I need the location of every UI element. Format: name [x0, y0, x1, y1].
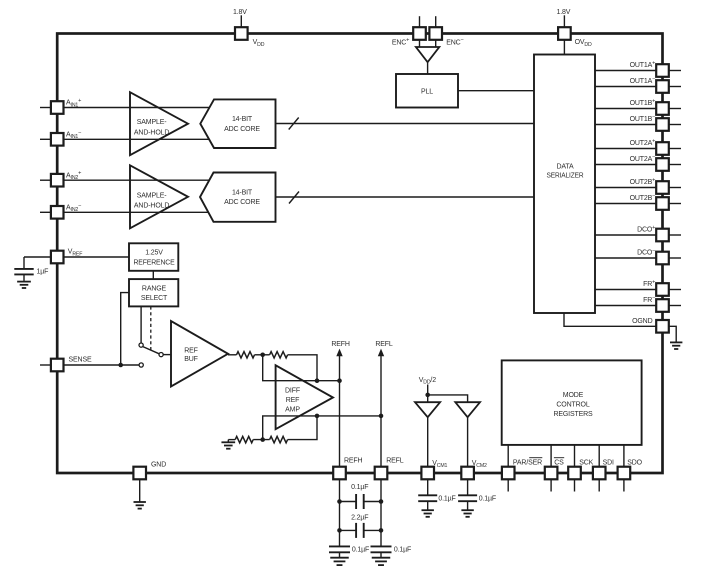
pin ENC-	[435, 16, 437, 27]
pin SDI	[598, 479, 600, 491]
mode control registers block	[502, 360, 642, 445]
ground at VCM1 capacitor	[422, 509, 434, 511]
svg-text:CONTROL: CONTROL	[556, 402, 589, 409]
wire serializer to FR+ pin	[595, 289, 663, 291]
wire serializer to OUT2A- pin	[595, 164, 663, 166]
svg-text:1µF: 1µF	[37, 268, 49, 275]
pin REFH	[333, 467, 346, 480]
data serializer block	[534, 55, 595, 314]
svg-text:OGND: OGND	[632, 318, 652, 325]
wire ADC core 1 output bus to data serializer	[276, 123, 535, 125]
switch contact SENSE (open circle)	[139, 363, 143, 367]
svg-text:REFL: REFL	[386, 457, 404, 464]
pin OUT1A-	[669, 86, 681, 88]
ground at VCM2 capacitor	[461, 509, 473, 511]
range select block	[129, 279, 178, 306]
svg-text:REFH: REFH	[331, 341, 350, 348]
wire serializer to FR- pin	[595, 305, 663, 307]
wire mode control registers to pin	[623, 445, 625, 473]
svg-text:ADC CORE: ADC CORE	[224, 199, 260, 206]
bus slash mark channel 1	[289, 118, 299, 130]
svg-text:REF: REF	[184, 348, 198, 355]
wire VCM2 buffer to pin	[467, 417, 469, 473]
wire VCM1 buffer to pin	[427, 417, 429, 473]
svg-text:1.25V: 1.25V	[145, 250, 163, 257]
svg-text:2.2µF: 2.2µF	[351, 514, 368, 521]
svg-text:GND: GND	[151, 461, 166, 468]
bus slash mark channel 2	[289, 192, 299, 204]
svg-text:PLL: PLL	[421, 89, 433, 96]
capacitor 2.2uF between REFH and REFL	[340, 529, 357, 531]
pin VDD	[240, 15, 242, 27]
pin AIN2-	[40, 211, 51, 213]
svg-text:OUT2A−: OUT2A−	[630, 155, 656, 164]
dashed control line from range select to switch	[150, 306, 152, 351]
wire VDD/2 to VCM2 buffer	[428, 395, 468, 402]
pin OUT1B-	[669, 124, 681, 126]
wire serializer to DCO- pin	[595, 257, 663, 259]
svg-text:SAMPLE-: SAMPLE-	[137, 119, 167, 126]
svg-text:BUF: BUF	[184, 356, 198, 363]
sample-and-hold amp 2	[130, 165, 188, 228]
ground at GND pin	[139, 479, 141, 501]
wire serializer to DCO+ pin	[595, 234, 663, 236]
pin AIN2+	[40, 179, 51, 181]
node REFL internal rail with arrow	[380, 356, 382, 474]
svg-text:SAMPLE-: SAMPLE-	[137, 192, 167, 199]
capacitor 0.1uF REFL to ground	[371, 545, 392, 547]
wire serializer to OUT2A+ pin	[595, 148, 663, 150]
sample-and-hold amp 1	[130, 92, 188, 155]
svg-text:DATA: DATA	[556, 163, 574, 170]
wire range select to upper switch contact	[140, 306, 142, 343]
pin ENC+	[419, 16, 421, 27]
1.25V reference block	[129, 243, 178, 270]
svg-text:SELECT: SELECT	[141, 295, 168, 302]
buffer VCM1 (unity-gain)	[415, 402, 440, 417]
junction REFL sense node	[379, 414, 384, 419]
capacitor 0.1uF between REFH and REFL	[340, 501, 357, 503]
chip outline (IC boundary)	[57, 34, 662, 474]
svg-text:SDO: SDO	[627, 459, 642, 466]
wire mode control registers to pin	[574, 445, 576, 473]
overline on CS	[554, 457, 564, 459]
junction diff amp + input node	[315, 378, 320, 383]
svg-text:OUT1B+: OUT1B+	[630, 99, 656, 108]
wire top feedback to diff amp + input	[263, 355, 340, 381]
wire AIN2+ input to S/H and ADC core 2	[57, 179, 211, 181]
pin OUT1A+	[669, 70, 681, 72]
wire REFL decoupling rail	[380, 479, 382, 546]
wire ENC+ pin to clock buffer	[419, 34, 421, 48]
capacitor 0.1uF REFH to ground	[329, 545, 350, 547]
svg-text:RANGE: RANGE	[142, 286, 167, 293]
resistor R4	[270, 436, 288, 442]
wire PLL to data serializer	[458, 90, 534, 92]
wire bottom feedback to diff amp - input	[263, 416, 381, 440]
wire mode control registers to pin	[598, 445, 600, 473]
svg-text:REF: REF	[286, 397, 300, 404]
svg-text:OUT2A+: OUT2A+	[630, 139, 656, 148]
svg-text:0.1µF: 0.1µF	[438, 495, 455, 502]
pin REFL	[375, 467, 388, 480]
wire VREF pin to 1.25V reference	[57, 256, 129, 258]
capacitor 0.1uF at VCM1	[427, 479, 429, 495]
svg-text:SERIALIZER: SERIALIZER	[547, 173, 584, 180]
wire R2 to REFH node	[288, 355, 317, 381]
wire REFH decoupling rail	[339, 479, 341, 546]
svg-text:0.1µF: 0.1µF	[352, 546, 369, 553]
wire ADC core 2 output bus to data serializer	[276, 196, 535, 198]
wire AIN1+ input to S/H and ADC core 1	[57, 107, 211, 109]
wire ground to R3	[228, 439, 235, 441]
pin SENSE	[40, 364, 51, 366]
wire R4 to REFL node	[288, 416, 317, 440]
overline on SER of PAR/SER	[529, 457, 542, 459]
junction ref divider top	[260, 353, 265, 358]
pin FR+	[669, 289, 681, 291]
ground at REFL capacitor	[372, 557, 391, 559]
pin DCO+	[669, 234, 681, 236]
svg-text:1.8V: 1.8V	[557, 9, 571, 16]
pin OUT2A+	[669, 148, 681, 150]
wire switch pole to ref buffer	[163, 354, 171, 356]
svg-text:MODE: MODE	[563, 392, 584, 399]
pin CS	[550, 479, 552, 491]
svg-text:AND-HOLD: AND-HOLD	[134, 130, 169, 137]
switch lever	[143, 347, 160, 354]
svg-text:1.8V: 1.8V	[233, 9, 247, 16]
svg-text:OUT2B−: OUT2B−	[630, 194, 656, 203]
wire SENSE feedback to range select	[121, 293, 129, 365]
ADC core 1 (14-bit)	[200, 99, 275, 148]
pin VREF	[24, 256, 51, 258]
wire serializer to OUT2B+ pin	[595, 187, 663, 189]
resistor R3	[235, 436, 253, 442]
junction ref divider bottom	[260, 437, 265, 442]
op-amp DIFF REF AMP	[276, 365, 333, 429]
pin OUT2A-	[669, 164, 681, 166]
svg-text:OUT1B−: OUT1B−	[630, 115, 656, 124]
wire mode control registers to pin	[507, 445, 509, 473]
junction REFH sense node	[337, 378, 342, 383]
svg-text:PAR/SER: PAR/SER	[513, 459, 542, 466]
wire ref buffer output	[228, 354, 237, 356]
svg-text:SENSE: SENSE	[69, 357, 92, 364]
ADC core 2 (14-bit)	[200, 173, 276, 222]
svg-text:OUT1A−: OUT1A−	[630, 77, 656, 86]
svg-text:14-BIT: 14-BIT	[232, 116, 253, 123]
pin OGND	[656, 320, 669, 333]
switch pole (open circle)	[159, 353, 163, 357]
capacitor 0.1uF at VCM2	[467, 479, 469, 495]
wire R3 to R4	[253, 439, 269, 441]
svg-text:REFH: REFH	[344, 457, 363, 464]
ground at VREF capacitor	[17, 281, 31, 283]
svg-text:SCK: SCK	[579, 459, 593, 466]
wire 1.25V reference to range select	[152, 271, 154, 279]
pin SCK	[574, 479, 576, 491]
buffer VCM2 (unity-gain)	[455, 402, 480, 417]
wire serializer to OUT1A- pin	[595, 86, 663, 88]
pin PAR/SER	[507, 479, 509, 491]
wire R1 to R2	[255, 354, 270, 356]
PLL block	[396, 74, 458, 108]
svg-text:0.1µF: 0.1µF	[351, 484, 368, 491]
ground at OGND	[669, 326, 676, 342]
svg-text:REFERENCE: REFERENCE	[134, 259, 175, 266]
wire mode control registers to pin	[550, 445, 552, 473]
svg-text:OUT2B+: OUT2B+	[630, 178, 656, 187]
svg-text:REGISTERS: REGISTERS	[553, 411, 593, 418]
capacitor 1uF at VREF	[23, 257, 25, 269]
ground at R3	[227, 440, 229, 442]
wire AIN1- input to S/H and ADC core 1	[57, 138, 211, 140]
pin DCO-	[669, 257, 681, 259]
pin AIN1+	[40, 107, 51, 109]
svg-text:14-BIT: 14-BIT	[232, 189, 253, 196]
wire AIN2- input to S/H and ADC core 2	[57, 211, 211, 213]
pin FR-	[669, 305, 681, 307]
node REFH internal rail with arrow	[339, 356, 341, 474]
wire serializer to OUT2B- pin	[595, 203, 663, 205]
pin GND	[133, 467, 146, 480]
pin OVDD	[563, 15, 565, 27]
svg-text:DIFF: DIFF	[285, 387, 300, 394]
svg-text:OUT1A+: OUT1A+	[630, 61, 656, 70]
junction diff amp - input node	[315, 414, 320, 419]
junction SENSE node	[118, 363, 123, 368]
resistor R1	[237, 352, 255, 358]
ground at REFH capacitor	[330, 557, 349, 559]
wire clock buffer to PLL	[427, 62, 429, 75]
svg-text:AND-HOLD: AND-HOLD	[134, 203, 169, 210]
svg-text:0.1µF: 0.1µF	[479, 495, 496, 502]
wire OVDD pin to data serializer	[563, 34, 565, 55]
junction VDD/2 node	[425, 393, 430, 398]
pin AIN1-	[40, 138, 51, 140]
wire VDD/2 stub	[427, 385, 429, 403]
wire serializer to OUT1B+ pin	[595, 108, 663, 110]
pin OUT1B+	[669, 108, 681, 110]
switch contact upper (open circle)	[139, 343, 143, 347]
wire serializer to OGND pin	[564, 313, 663, 326]
pin OUT2B+	[669, 187, 681, 189]
svg-text:ADC CORE: ADC CORE	[224, 126, 260, 133]
clock input buffer	[416, 47, 439, 62]
wire serializer to OUT1B- pin	[595, 124, 663, 126]
svg-text:AMP: AMP	[285, 407, 300, 414]
wire serializer to OUT1A+ pin	[595, 70, 663, 72]
pin OUT2B-	[669, 203, 681, 205]
wire ENC- pin to clock buffer	[435, 34, 437, 48]
pin SDO	[623, 479, 625, 491]
pin VCM2	[461, 467, 474, 480]
svg-text:0.1µF: 0.1µF	[394, 546, 411, 553]
resistor R2	[270, 352, 288, 358]
pin VCM1	[421, 467, 434, 480]
op-amp REF BUF	[171, 321, 228, 387]
wire SENSE pin to switch contact	[57, 364, 139, 366]
svg-text:CS: CS	[554, 459, 564, 466]
svg-text:REFL: REFL	[375, 341, 393, 348]
svg-text:SDI: SDI	[603, 459, 614, 466]
